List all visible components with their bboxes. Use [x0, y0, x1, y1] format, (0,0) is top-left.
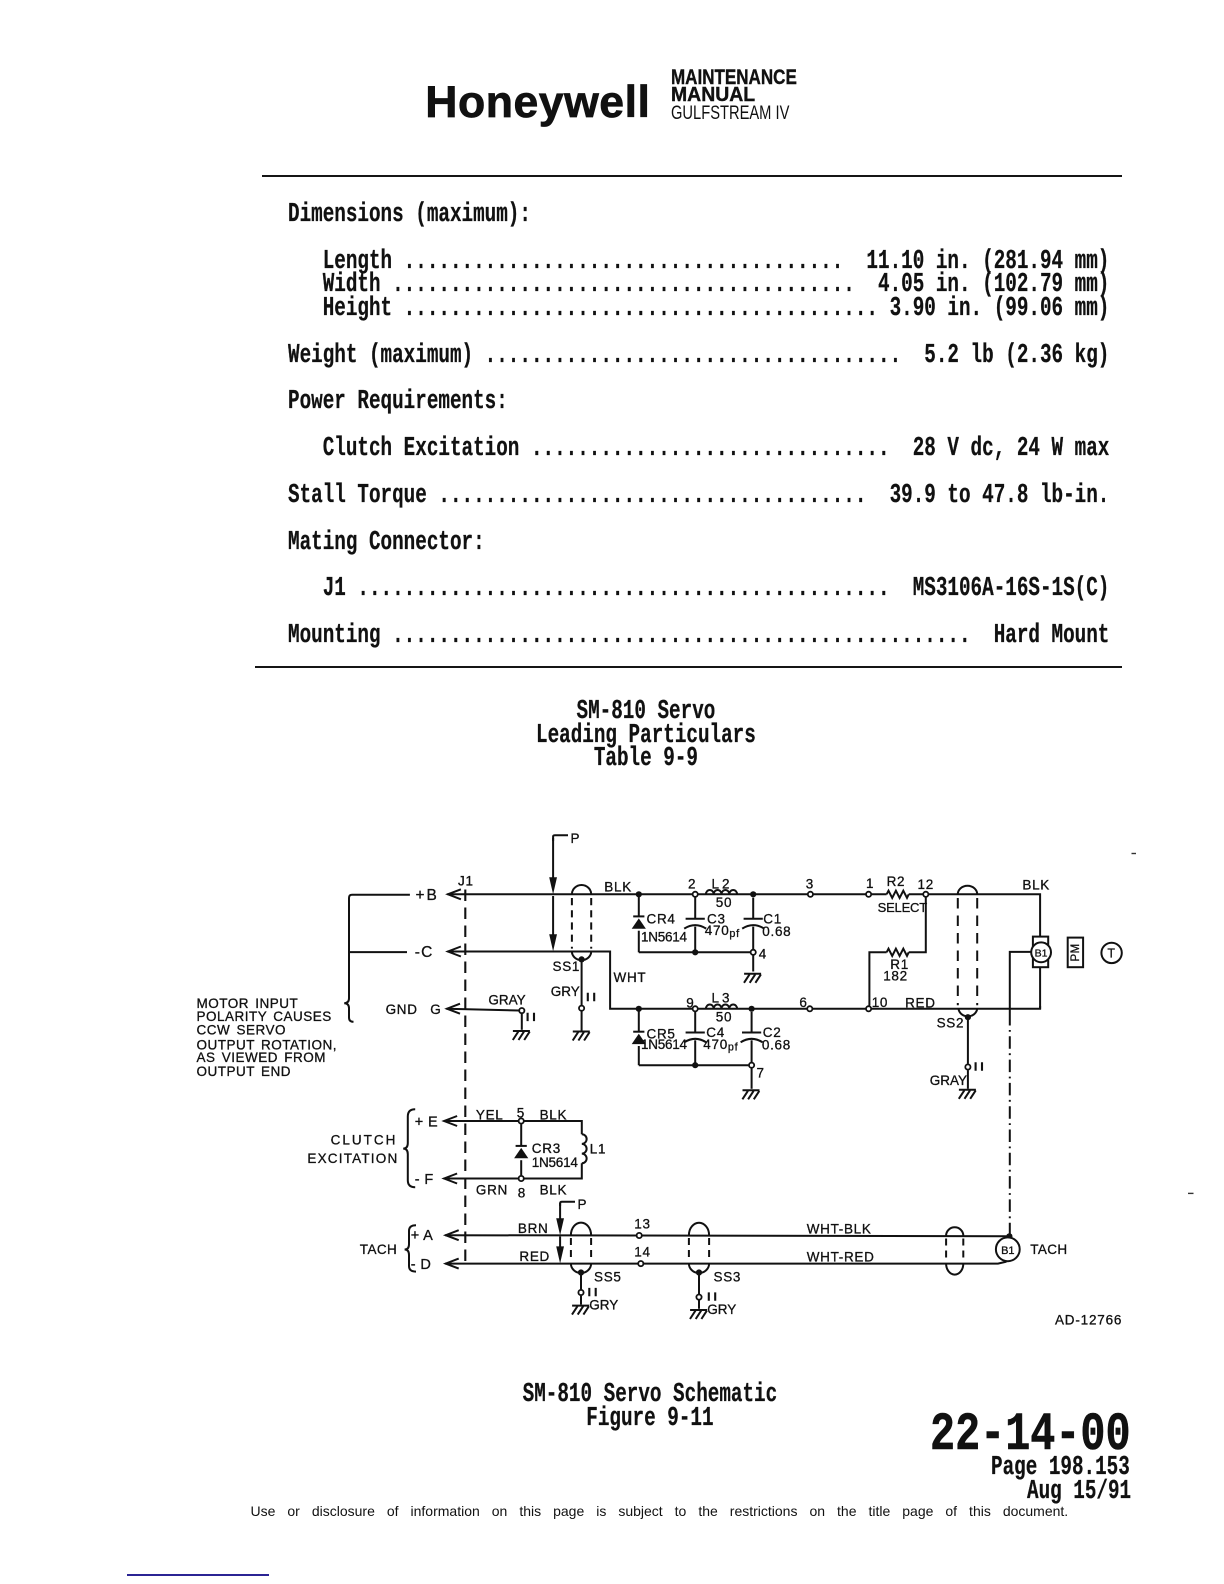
- inductor L3: [706, 1005, 737, 1009]
- junction (tach top): [1006, 1233, 1012, 1239]
- svg-text:0.68: 0.68: [762, 1037, 791, 1052]
- motor input note bracket: [344, 895, 410, 1022]
- svg-text:T: T: [1107, 947, 1115, 961]
- svg-text:7: 7: [757, 1066, 765, 1081]
- svg-text:OUTPUT END: OUTPUT END: [197, 1064, 292, 1079]
- svg-text:CCW SERVO: CCW SERVO: [197, 1023, 287, 1038]
- svg-text:PM: PM: [1070, 943, 1082, 961]
- svg-text:EXCITATION: EXCITATION: [307, 1151, 398, 1166]
- svg-text:BLK: BLK: [540, 1108, 568, 1123]
- connector J1 label: [458, 873, 474, 888]
- svg-text:CR4: CR4: [647, 911, 676, 926]
- svg-text:50: 50: [716, 1009, 732, 1024]
- terminal 6: [799, 995, 812, 1011]
- label BRN: [518, 1221, 549, 1236]
- svg-text:BRN: BRN: [518, 1221, 549, 1236]
- svg-text:- D: - D: [411, 1257, 432, 1273]
- label GND G: [386, 1002, 442, 1017]
- label SS1: [553, 959, 581, 974]
- label +E: [415, 1114, 438, 1130]
- label BLK (pin 5): [540, 1108, 568, 1123]
- svg-text:BLK: BLK: [1022, 877, 1050, 892]
- ground at terminal 7: [742, 1068, 759, 1099]
- shield SS1 ground lead: [573, 962, 595, 1041]
- wire GND G to ground: [447, 1008, 535, 1040]
- svg-text:2: 2: [688, 877, 696, 892]
- label CR5: [647, 1026, 676, 1041]
- shield SS5 ground lead: [572, 1275, 596, 1315]
- pin -F arrow (J1): [444, 1174, 457, 1184]
- svg-text:RED: RED: [519, 1249, 550, 1264]
- svg-text:L3: L3: [712, 991, 733, 1006]
- label CR4: [647, 911, 676, 926]
- label C1: [763, 911, 782, 926]
- diode CR5: [632, 1009, 646, 1065]
- resistor R1 with leads: [869, 898, 925, 1006]
- wire CR4/C3/C1 common rail: [639, 951, 750, 953]
- label CR3: [532, 1141, 561, 1156]
- wire -C / WHT / lower rail: [447, 952, 1040, 1009]
- label GRY (SS3): [707, 1302, 736, 1317]
- svg-text:BLK: BLK: [540, 1182, 568, 1197]
- value 0.68 (C2): [762, 1037, 791, 1052]
- svg-text:1N5614: 1N5614: [641, 930, 688, 945]
- label SELECT: [878, 900, 928, 915]
- svg-text:L1: L1: [590, 1142, 606, 1157]
- svg-text:SELECT: SELECT: [878, 900, 928, 915]
- shield SS2: [958, 886, 977, 1021]
- diode CR3: [514, 1124, 528, 1175]
- svg-text:J1: J1: [458, 873, 474, 888]
- label GRY (SS1): [551, 984, 580, 999]
- svg-text:12: 12: [918, 877, 934, 892]
- ground at terminal 4: [744, 956, 761, 983]
- label L1: [590, 1142, 606, 1157]
- pin +B arrow (J1): [448, 889, 461, 899]
- svg-text:RED: RED: [905, 996, 936, 1011]
- terminal 3: [806, 877, 814, 897]
- label -C: [415, 944, 434, 961]
- test point P (lower): [556, 1197, 587, 1263]
- svg-text:9: 9: [686, 995, 694, 1010]
- wire motor B1 to tach (dash-dot): [1010, 952, 1031, 1236]
- svg-text:- F: - F: [415, 1172, 434, 1188]
- wire -D / WHT-RED: [445, 1262, 1006, 1264]
- inductor L2: [706, 890, 737, 894]
- terminal 12: [918, 877, 934, 897]
- note: motor input polarity text: [197, 996, 338, 1079]
- pin -D arrow (J1): [446, 1259, 459, 1269]
- label +B: [416, 887, 439, 904]
- net label WHT: [614, 970, 647, 985]
- svg-text:GRY: GRY: [551, 984, 580, 999]
- svg-text:WHT: WHT: [614, 970, 647, 985]
- terminal 5: [517, 1105, 525, 1123]
- label SS2: [937, 1016, 965, 1031]
- label R1: [890, 957, 909, 972]
- svg-text:1: 1: [866, 876, 874, 891]
- label L3: [712, 991, 733, 1006]
- label GRAY (SS2): [930, 1073, 967, 1088]
- svg-text:+ A: + A: [411, 1228, 434, 1244]
- junction (L3 / C2): [749, 1006, 755, 1012]
- svg-text:6: 6: [799, 995, 807, 1010]
- resistor R2: [887, 891, 909, 898]
- Honeywell logo: [425, 81, 650, 126]
- wire CR5/C4/C2 common rail: [639, 1064, 749, 1066]
- terminal 14: [634, 1245, 650, 1267]
- svg-text:GRY: GRY: [589, 1297, 618, 1312]
- svg-text:3: 3: [806, 877, 814, 892]
- motor B1: [1031, 937, 1051, 968]
- label RED (tach): [519, 1249, 550, 1264]
- shield SS3 ground lead: [690, 1275, 715, 1320]
- svg-text:BLK: BLK: [604, 879, 632, 894]
- svg-text:182: 182: [883, 969, 908, 984]
- wire clutch loop with L1: [444, 1121, 587, 1179]
- junction (L2 / C1): [750, 891, 756, 897]
- shield SS1: [572, 885, 591, 963]
- svg-text:4: 4: [759, 946, 767, 961]
- label YEL: [476, 1108, 504, 1123]
- terminal 8: [518, 1176, 526, 1201]
- connector J1 boundary (dashed): [464, 890, 466, 1268]
- label SS5: [594, 1269, 622, 1284]
- net label BLK (upper left): [604, 879, 632, 894]
- svg-text:10: 10: [872, 995, 888, 1010]
- svg-text:AD-12766: AD-12766: [1055, 1313, 1122, 1328]
- terminal 10: [866, 995, 888, 1011]
- label GRN: [476, 1182, 508, 1197]
- net label WHT-BLK: [807, 1222, 872, 1237]
- svg-text:+ E: + E: [415, 1114, 438, 1130]
- field box PM: [1068, 938, 1083, 968]
- junction (C4 rail): [692, 1062, 698, 1068]
- svg-text:470pf: 470pf: [703, 1037, 738, 1054]
- table caption: [446, 701, 846, 772]
- svg-text:WHT-BLK: WHT-BLK: [807, 1222, 872, 1237]
- tach brace: [405, 1225, 416, 1271]
- shield SS5: [571, 1223, 591, 1276]
- svg-text:SS3: SS3: [714, 1269, 742, 1284]
- pin +E arrow (J1): [444, 1116, 457, 1126]
- svg-text:TACH: TACH: [1030, 1242, 1067, 1257]
- svg-text:1N5614: 1N5614: [532, 1155, 579, 1170]
- svg-text:470pf: 470pf: [705, 923, 740, 940]
- svg-text:CR3: CR3: [532, 1141, 561, 1156]
- capacitor C3: [684, 898, 706, 953]
- terminal 13: [634, 1217, 650, 1238]
- disclaimer: [251, 1503, 1069, 1519]
- value 470pf (C4): [703, 1037, 738, 1054]
- pin GND G arrow (J1): [447, 1004, 460, 1014]
- value 50 (L3): [716, 1009, 732, 1024]
- clutch brace: [403, 1109, 415, 1187]
- label GRAY (GND G): [488, 992, 525, 1007]
- terminal 7: [749, 1063, 765, 1081]
- net label RED: [905, 996, 936, 1011]
- figure caption: [450, 1384, 850, 1431]
- label +A: [411, 1228, 434, 1244]
- svg-text:WHT-RED: WHT-RED: [807, 1250, 875, 1265]
- wire motor B1 bottom to RED rail: [1039, 967, 1041, 1009]
- terminal 9: [686, 995, 698, 1011]
- svg-text:8: 8: [518, 1186, 526, 1201]
- svg-text:R2: R2: [887, 874, 906, 889]
- label TACH: [360, 1242, 397, 1257]
- label C2: [763, 1025, 782, 1040]
- drawing number AD-12766: [1055, 1313, 1122, 1328]
- label SS3: [714, 1269, 742, 1284]
- net label BLK (right): [1022, 877, 1050, 892]
- wire +B/BLK top line to motor: [447, 894, 1040, 936]
- svg-text:GRAY: GRAY: [930, 1073, 967, 1088]
- svg-text:13: 13: [634, 1217, 650, 1232]
- svg-text:CLUTCH: CLUTCH: [331, 1133, 398, 1148]
- terminal 4: [751, 946, 767, 961]
- label BLK (pin 8): [540, 1182, 568, 1197]
- label -D: [411, 1257, 432, 1273]
- svg-text:B1: B1: [1035, 947, 1048, 959]
- value 1N5614 (CR5): [641, 1037, 688, 1052]
- junction (C3 rail): [692, 949, 698, 955]
- terminal 1: [866, 876, 874, 897]
- svg-text:0.68: 0.68: [762, 924, 791, 939]
- capacitor C2: [741, 1012, 763, 1062]
- label GRY (SS5): [589, 1297, 618, 1312]
- label EXCITATION: [307, 1151, 398, 1166]
- pin +A arrow (J1): [446, 1230, 459, 1240]
- junction (WHT / CR5): [636, 1006, 642, 1012]
- tach symbol T: [1101, 943, 1121, 963]
- chapter number 22-14-00: [930, 1405, 1131, 1467]
- svg-text:TACH: TACH: [360, 1242, 397, 1257]
- svg-text:14: 14: [634, 1245, 650, 1260]
- svg-text:50: 50: [716, 895, 732, 910]
- svg-text:SS5: SS5: [594, 1269, 622, 1284]
- label R2: [887, 874, 906, 889]
- svg-text:YEL: YEL: [476, 1108, 504, 1123]
- label CLUTCH: [331, 1133, 398, 1148]
- value 0.68 (C1): [762, 924, 791, 939]
- svg-text:5: 5: [517, 1105, 525, 1120]
- svg-text:G: G: [430, 1002, 441, 1017]
- value 470pf (C3): [705, 923, 740, 940]
- shield SS3: [689, 1223, 709, 1276]
- tach generator B1: [996, 1237, 1020, 1261]
- svg-text:P: P: [571, 831, 581, 846]
- label -F: [415, 1172, 434, 1188]
- svg-text:GND: GND: [386, 1002, 418, 1017]
- svg-text:P: P: [578, 1197, 588, 1212]
- value 50 (L2): [716, 895, 732, 910]
- svg-text:B1: B1: [1001, 1245, 1014, 1257]
- svg-text:L2: L2: [712, 877, 733, 892]
- leading particulars table text: [288, 204, 1109, 648]
- capacitor C4: [684, 1012, 706, 1065]
- svg-text:GRY: GRY: [707, 1302, 736, 1317]
- test point P (upper): [549, 831, 580, 951]
- terminal 2: [688, 877, 698, 897]
- svg-text:GRAY: GRAY: [488, 992, 525, 1007]
- stray mark: [1132, 854, 1194, 1194]
- value 182 (R1): [883, 969, 908, 984]
- capacitor C1: [742, 898, 764, 949]
- svg-text:GRN: GRN: [476, 1182, 508, 1197]
- label C3: [707, 911, 726, 926]
- shield SS2 ground lead: [959, 1019, 982, 1099]
- junction (BLK / CR4): [636, 891, 642, 897]
- pin -C arrow (J1): [448, 947, 461, 957]
- diode CR4: [632, 894, 646, 952]
- label TACH (right): [1030, 1242, 1067, 1257]
- value 1N5614 (CR3): [532, 1155, 579, 1170]
- manual title block: [671, 67, 797, 88]
- label L2: [712, 877, 733, 892]
- label C4: [706, 1025, 725, 1040]
- value 1N5614 (CR4): [641, 930, 688, 945]
- svg-text:SS1: SS1: [553, 959, 581, 974]
- net label WHT-RED: [807, 1250, 875, 1265]
- shield (tach leads at motor): [946, 1227, 963, 1274]
- svg-text:SS2: SS2: [937, 1016, 965, 1031]
- svg-text:1N5614: 1N5614: [641, 1037, 688, 1052]
- svg-text:-C: -C: [415, 944, 434, 961]
- svg-text:+B: +B: [416, 887, 439, 904]
- wire +A / WHT-BLK: [445, 1235, 1009, 1236]
